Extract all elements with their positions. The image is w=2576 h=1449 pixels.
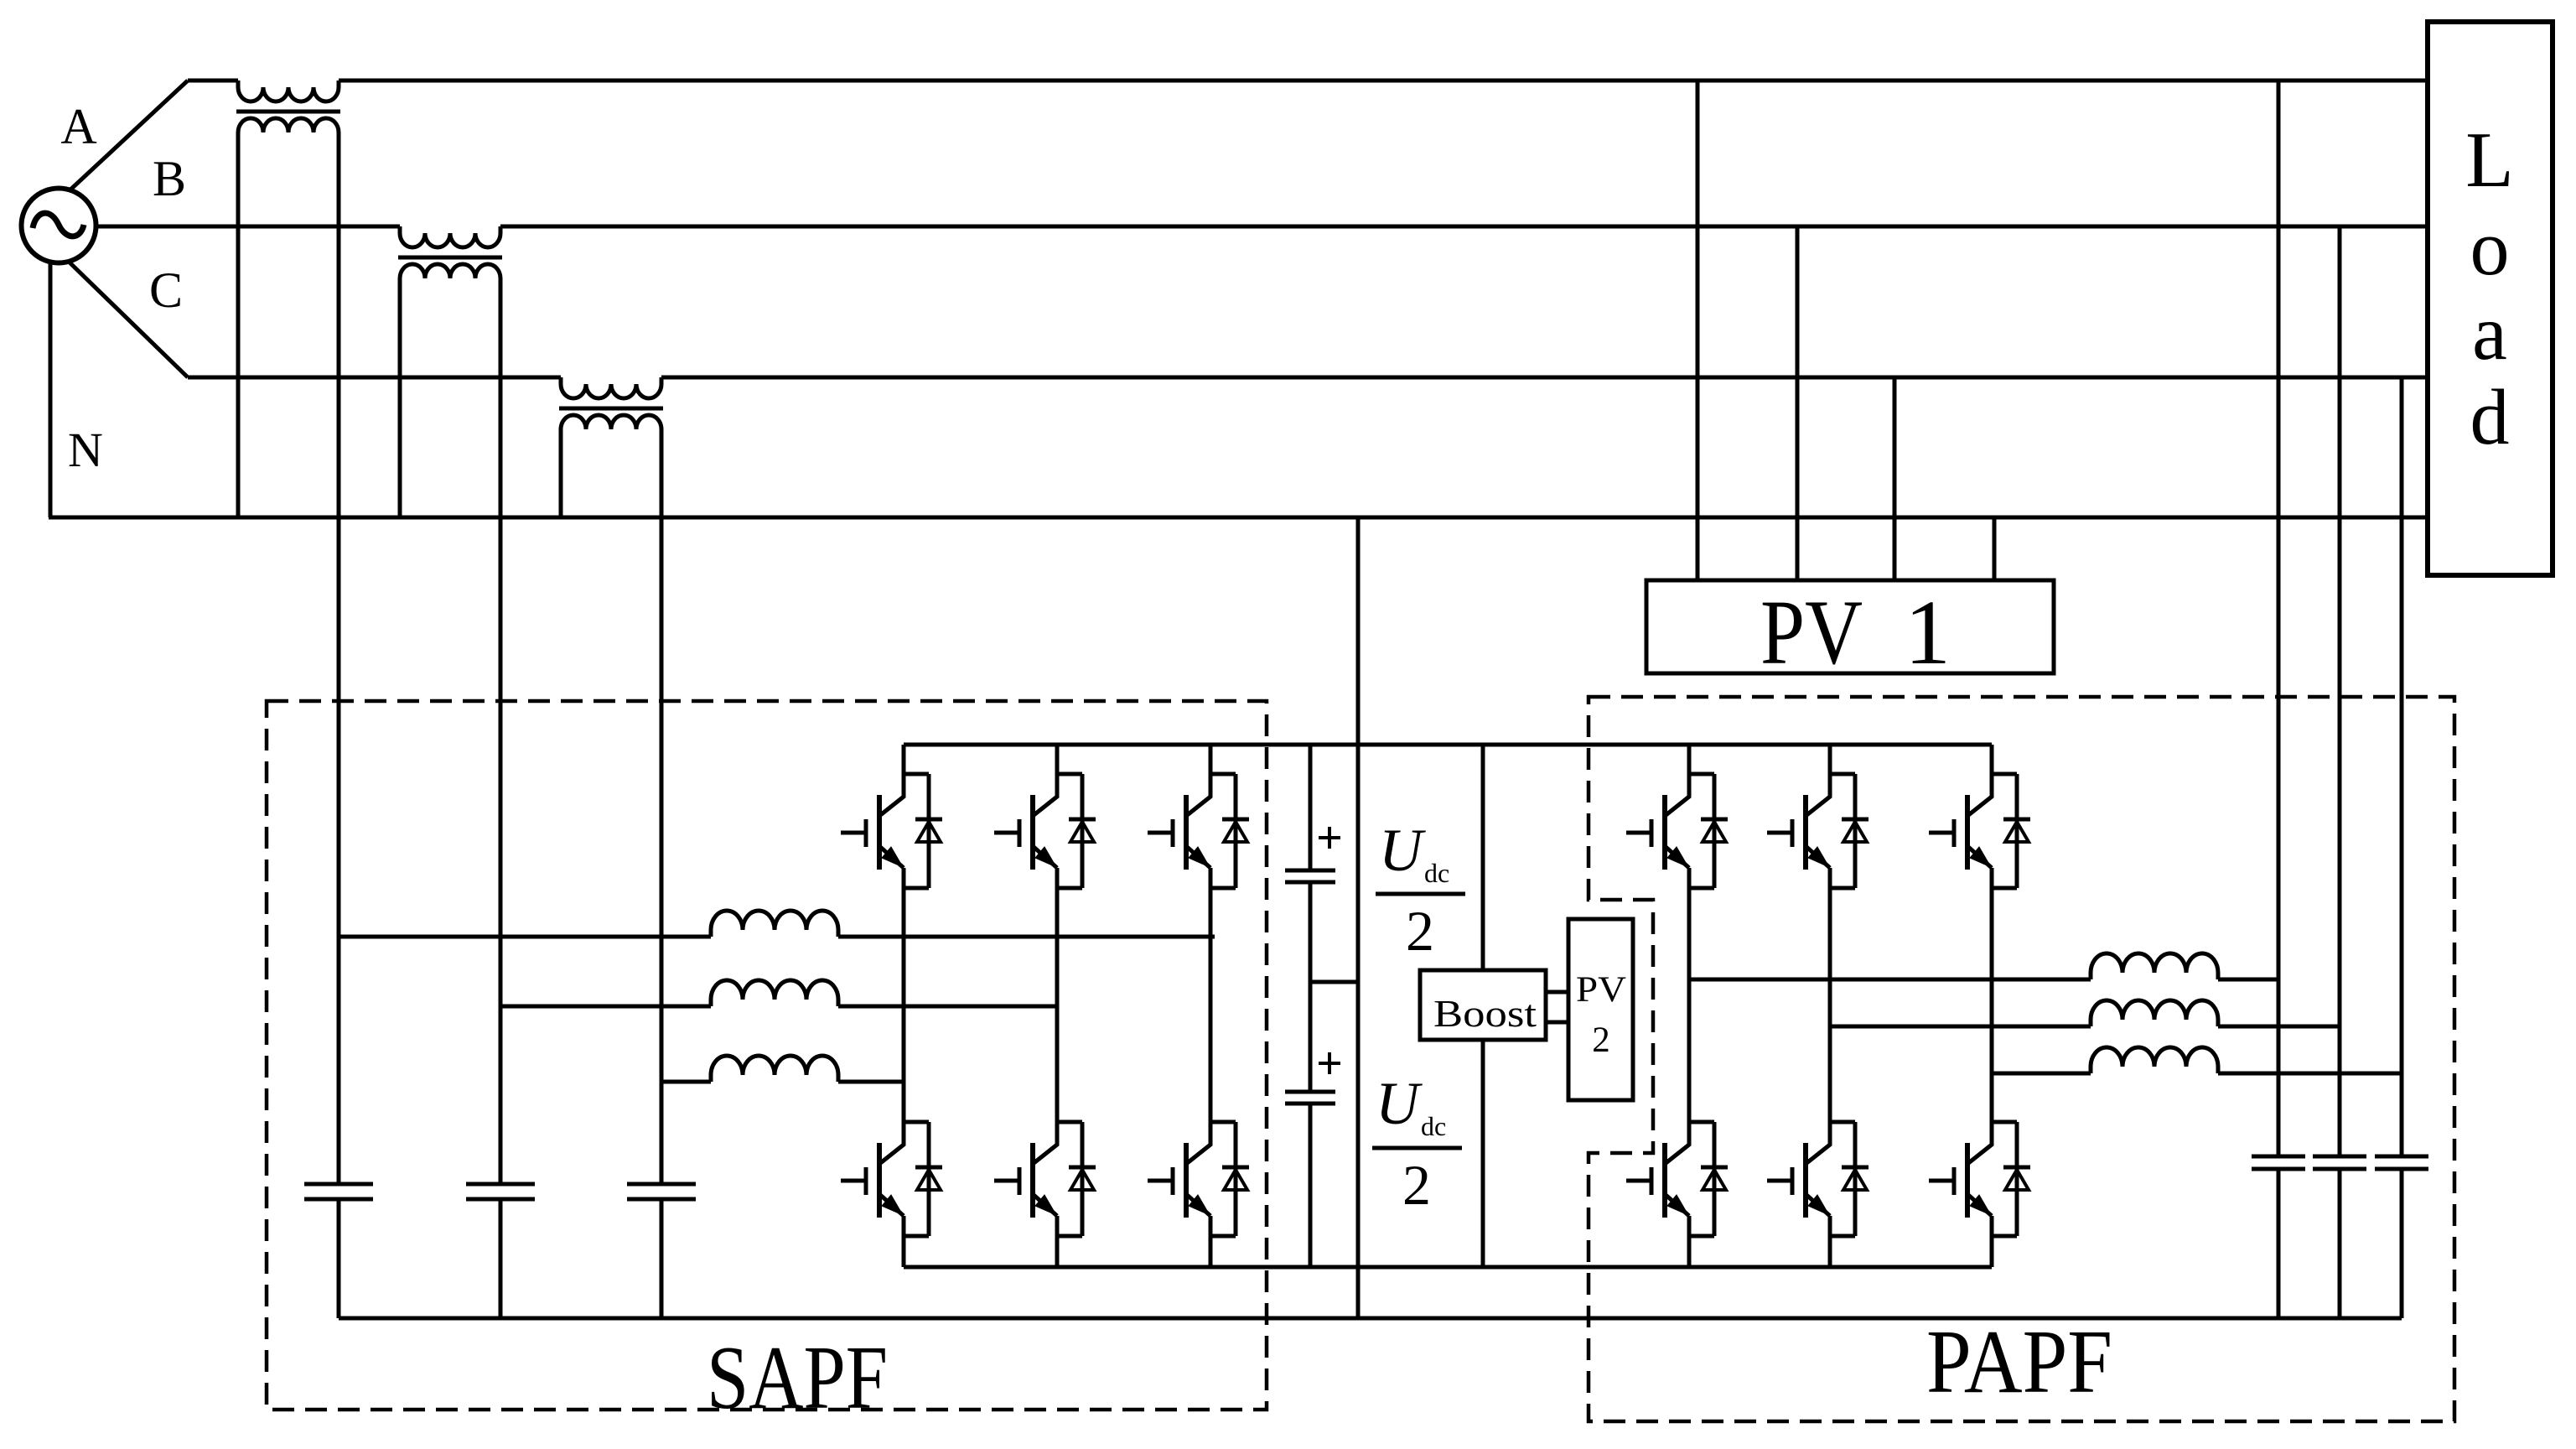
svg-text:L: L [2465,117,2513,204]
svg-text:dc: dc [1421,1111,1446,1141]
capacitor C_dc1 (upper DC-link) [1285,870,1335,882]
wire PAPF phase-a row [1689,978,2091,982]
wire N from source down [49,260,53,517]
wire DC cap string lower segment [1309,1104,1313,1267]
svg-text:B: B [153,151,186,206]
capacitor C6 (PAPF filter) [2375,1156,2428,1169]
IGBT P2 upper with antiparallel diode (PAPF) [1767,774,1869,888]
capacitor C3 (SAPF filter) [627,1184,696,1199]
wire T1 secondary right down to SAPF [337,132,341,1184]
wire DC negative rail [904,1265,1992,1270]
svg-text:d: d [2470,374,2510,461]
wire PAPF leg 2 mid [1828,888,1832,1122]
svg-text:2: 2 [1592,1021,1610,1060]
wire SAPF phase-b row [500,1005,711,1009]
svg-text:N: N [68,423,103,477]
svg-text:U: U [1379,817,1426,884]
wire PAPF leg 3 upper stub [1990,745,1994,774]
value label Udc/2 (lower) [1372,1070,1462,1217]
wire DC positive rail [904,743,1992,747]
wire PAPF phase-c row [1992,1072,2091,1076]
wire T3 secondary left to N bus [559,429,563,517]
wire T2 secondary left to N bus [398,278,402,517]
ac source (three-phase supply) [22,189,96,263]
wire N link down to DC midpoint and bottom bus [1356,517,1361,1318]
svg-text:PV: PV [1760,581,1863,683]
PV 2 block [1568,919,1633,1100]
wire SAPF leg 3 upper stub [1209,745,1213,774]
IGBT P1 upper with antiparallel diode (PAPF) [1626,774,1728,888]
Load block [2428,22,2553,575]
wire Boost to PV2 lower [1546,1021,1568,1025]
wire PAPF leg 3 lower stub [1990,1236,1994,1267]
wire phase B from source [96,225,400,229]
wire SAPF leg 1 upper stub [902,745,906,774]
wire C1 to bottom bus [337,1199,341,1318]
wire phase C bus to Load [661,376,2427,380]
svg-text:a: a [2472,289,2507,377]
wire PAPF leg 1 lower stub [1687,1236,1692,1267]
wire phase B bus to Load [500,225,2427,229]
transformer T1 (series injection, phase A) [236,80,340,132]
wire T1 secondary left to N bus [236,132,241,517]
wire phase C tap down to PV1 [1893,377,1897,580]
wire SAPF leg 1 mid [902,888,906,1122]
wire PAPF phase-c row to grid tap [2218,1072,2402,1076]
wire PAPF leg 2 lower stub [1828,1236,1832,1267]
wire SAPF leg 1 lower stub [902,1236,906,1267]
transformer T2 (series injection, phase B) [398,226,502,278]
wire SAPF phase-c row [661,1080,711,1084]
wire N tap down to PV1 [1993,517,1997,580]
wire boost link upper [1481,745,1485,970]
wire SAPF leg 2 lower stub [1055,1236,1060,1267]
wire SAPF leg 2 upper stub [1055,745,1060,774]
svg-text:SAPF: SAPF [707,1328,888,1428]
wire SAPF phase-a row to leg 3 [838,935,1215,939]
svg-text:PAPF: PAPF [1926,1312,2112,1412]
value label Udc/2 (upper) [1376,817,1465,963]
wire PAPF leg 1 upper stub [1687,745,1692,774]
svg-text:PV: PV [1576,970,1626,1010]
IGBT S2 lower with antiparallel diode (SAPF) [994,1122,1096,1236]
svg-text:C: C [149,262,183,318]
svg-text:U: U [1376,1070,1423,1137]
wire C4 to bottom bus [2277,1169,2281,1318]
svg-text:2: 2 [1406,899,1434,963]
plus polarity mark of C_dc2 [1319,1052,1340,1074]
wire phase C tap down to PAPF filter [2400,377,2404,1156]
IGBT S3 lower with antiparallel diode (SAPF) [1148,1122,1249,1236]
svg-text:dc: dc [1424,858,1449,888]
inductor L4 (PAPF phase a) [2091,953,2218,979]
wire T3 secondary right down to SAPF [660,429,664,1184]
wire phase B tap down to PV1 [1796,226,1800,580]
IGBT S2 upper with antiparallel diode (SAPF) [994,774,1096,888]
wire SAPF phase-b row to leg 2 [838,1005,1057,1009]
wire PAPF leg 1 mid [1687,888,1692,1122]
Boost converter block [1420,970,1546,1040]
IGBT S1 upper with antiparallel diode (SAPF) [841,774,942,888]
wire DC cap string upper segment [1309,745,1313,870]
wire phase A to transformer [188,79,238,83]
wire phase C diagonal from source [69,262,188,377]
capacitor C2 (SAPF filter) [466,1184,535,1199]
IGBT S1 lower with antiparallel diode (SAPF) [841,1122,942,1236]
transformer T3 (series injection, phase C) [559,377,663,429]
wire PAPF phase-a row to grid tap [2218,978,2278,982]
IGBT S3 upper with antiparallel diode (SAPF) [1148,774,1249,888]
PAPF dashed boundary [1589,697,2454,1421]
wire T2 secondary right down to SAPF [499,278,503,1184]
capacitor C4 (PAPF filter) [2252,1156,2305,1169]
wire boost link lower [1481,1040,1485,1267]
wire Boost to PV2 upper [1546,990,1568,995]
wire DC midpoint link [1310,980,1358,984]
inductor L6 (PAPF phase c) [2091,1047,2218,1073]
SAPF dashed boundary [267,701,1267,1410]
plus polarity mark of C_dc1 [1319,827,1340,849]
inductor L3 (SAPF phase c) [711,1056,838,1082]
wire C2 to bottom bus [499,1199,503,1318]
svg-text:A: A [60,99,96,154]
svg-text:o: o [2470,205,2510,292]
PV 1 block [1646,580,2054,683]
wire C3 to bottom bus [660,1199,664,1318]
wire SAPF leg 3 lower stub [1209,1236,1213,1267]
wire phase A diagonal from source [69,80,188,191]
wire phase A bus to Load [339,79,2427,83]
wire SAPF phase-a row [339,935,711,939]
inductor L1 (SAPF phase a) [711,911,838,937]
wire phase A tap down to PV1 [1696,80,1700,580]
wire bottom common bus [339,1317,2402,1321]
capacitor C1 (SAPF filter) [304,1184,373,1199]
wire phase C to transformer [188,376,561,380]
capacitor C5 (PAPF filter) [2313,1156,2366,1169]
wire DC cap string middle segment [1309,882,1313,1092]
inductor L5 (PAPF phase b) [2091,1000,2218,1026]
wire C6 to bottom bus [2400,1169,2404,1318]
wire PAPF leg 3 mid [1990,888,1994,1122]
wire N bus to Load [49,516,2427,520]
wire PAPF leg 2 upper stub [1828,745,1832,774]
IGBT P3 upper with antiparallel diode (PAPF) [1929,774,2030,888]
wire C5 to bottom bus [2338,1169,2342,1318]
inductor L2 (SAPF phase b) [711,980,838,1006]
wire SAPF leg 3 mid [1209,888,1213,1122]
svg-text:1: 1 [1905,581,1951,683]
wire PAPF phase-b row [1830,1025,2091,1029]
IGBT P1 lower with antiparallel diode (PAPF) [1626,1122,1728,1236]
capacitor C_dc2 (lower DC-link) [1285,1092,1335,1104]
IGBT P2 lower with antiparallel diode (PAPF) [1767,1122,1869,1236]
wire PAPF phase-b row to grid tap [2218,1025,2340,1029]
wire phase A tap down to PAPF filter [2277,80,2281,1156]
IGBT P3 lower with antiparallel diode (PAPF) [1929,1122,2030,1236]
svg-text:Boost: Boost [1433,993,1537,1035]
wire SAPF leg 2 mid [1055,888,1060,1122]
svg-text:2: 2 [1402,1153,1431,1217]
wire phase B tap down to PAPF filter [2338,226,2342,1156]
wire SAPF phase-c row to leg 1 [838,1080,904,1084]
